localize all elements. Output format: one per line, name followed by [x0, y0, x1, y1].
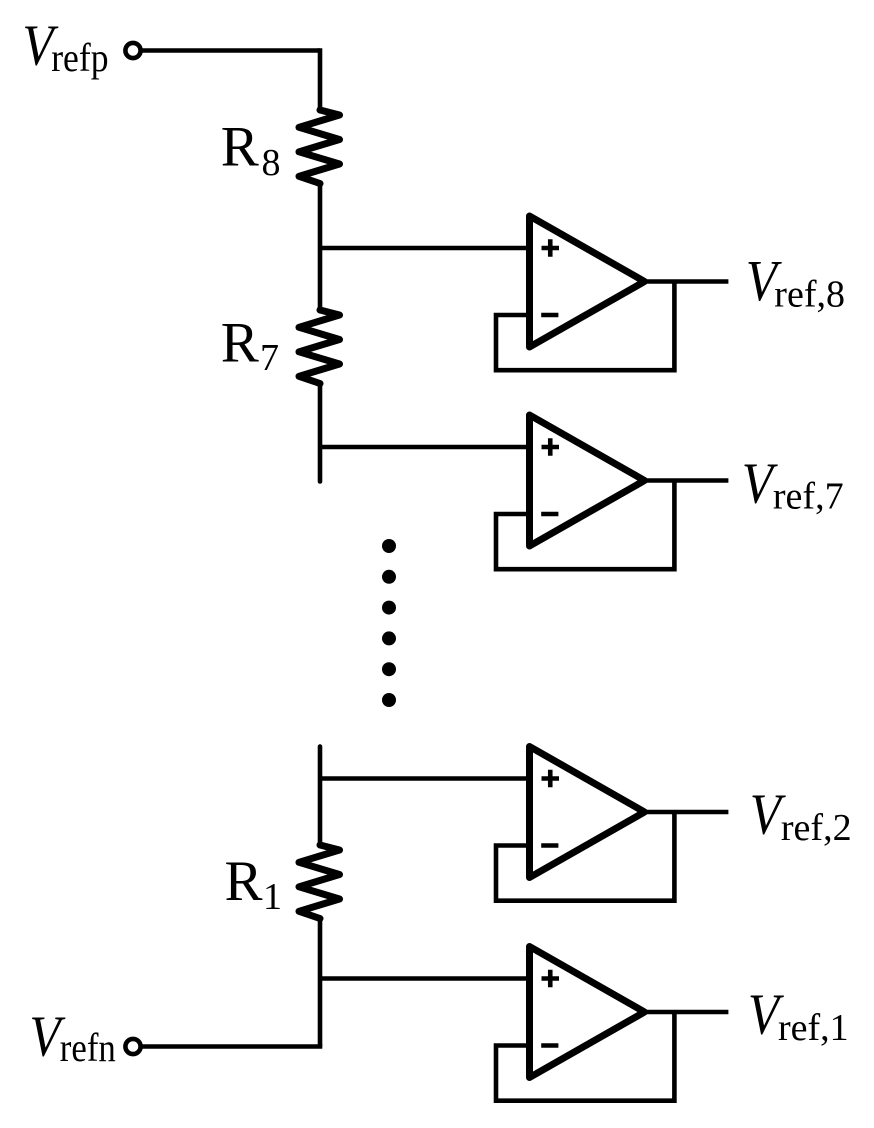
label Vref,1 output node [748, 982, 849, 1049]
svg-text:R: R [225, 850, 263, 913]
wire output U1 [645, 1010, 729, 1015]
resistor R8 [299, 110, 340, 184]
wire R1 to bottom rail [318, 919, 323, 1047]
svg-text:ref,1: ref,1 [778, 1007, 849, 1049]
svg-text:ref,2: ref,2 [781, 807, 852, 849]
svg-text:R: R [221, 116, 259, 179]
label Vrefn input net [29, 1004, 116, 1071]
wire feedback loop U8 [496, 282, 674, 371]
svg-text:ref,8: ref,8 [774, 274, 845, 316]
wire Vrefp to ladder [141, 48, 320, 53]
svg-text:ref,7: ref,7 [773, 476, 844, 518]
op-amp U2 [530, 747, 645, 878]
svg-text:1: 1 [263, 876, 282, 918]
op-amp U8 [530, 216, 645, 347]
wire output U8 [645, 279, 729, 284]
wire tap to op-amp U1 + input [320, 976, 530, 981]
ellipsis dots (ladder continuation) [382, 539, 396, 707]
label Vref,2 output node [750, 782, 852, 849]
op-amp U7 [530, 415, 645, 546]
wire output U2 [645, 810, 729, 815]
wire feedback loop U2 [496, 812, 674, 901]
label R7 [221, 312, 279, 380]
svg-text:8: 8 [262, 142, 281, 184]
wire R7 to stub end [318, 384, 323, 482]
resistor R7 [299, 310, 340, 384]
wire ladder lower stub [318, 747, 323, 846]
wire tap to op-amp U2 + input [320, 776, 530, 781]
wire feedback loop U7 [496, 481, 674, 570]
wire output U7 [645, 478, 729, 483]
svg-text:R: R [221, 312, 259, 375]
resistor R1 [299, 845, 340, 919]
terminal Vrefp [125, 43, 140, 58]
terminal Vrefn [125, 1039, 140, 1054]
svg-text:refp: refp [51, 36, 108, 80]
wire tap to op-amp U8 + input [320, 246, 530, 251]
wire tap to op-amp U7 + input [320, 445, 530, 450]
wire R8 to R7 [318, 184, 323, 311]
wire feedback loop U1 [496, 1012, 674, 1101]
label R1 [225, 850, 283, 918]
label Vref,8 output node [746, 248, 845, 315]
svg-text:7: 7 [260, 337, 279, 379]
label R8 [221, 116, 281, 185]
svg-text:refn: refn [60, 1027, 116, 1071]
wire Vrefn rail [141, 1044, 323, 1049]
wire ladder top segment [318, 48, 323, 110]
label Vref,7 output node [742, 450, 844, 517]
label Vrefp input net [22, 12, 108, 80]
op-amp U1 [530, 947, 645, 1078]
